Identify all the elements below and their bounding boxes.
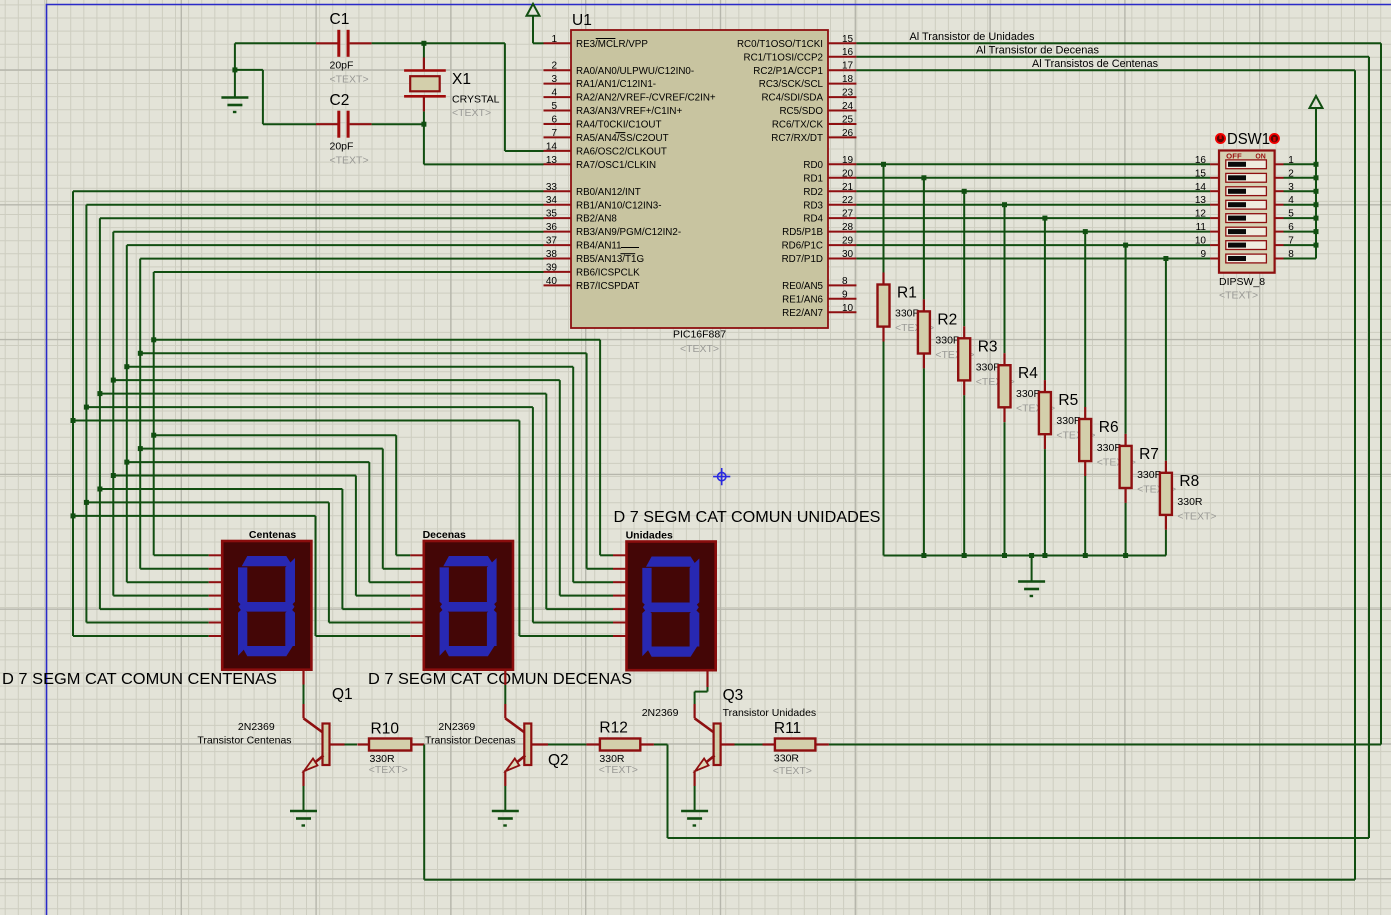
wire RB0 to Decenas display — [73, 515, 316, 517]
U1 left pin 37 stub — [544, 244, 572, 246]
Centenas segment g — [239, 602, 295, 612]
Centenas segment b — [285, 558, 295, 606]
svg-text:RD5/P1B: RD5/P1B — [782, 227, 823, 238]
U1 left pin 34 stub — [544, 204, 572, 206]
svg-text:19: 19 — [842, 155, 854, 166]
svg-text:15: 15 — [842, 34, 854, 45]
svg-text:DIPSW_8: DIPSW_8 — [1219, 276, 1265, 288]
crystal X1 top lead — [423, 58, 425, 70]
U1 right pin 24 stub — [828, 110, 856, 112]
DSW1 left pin 16 stub — [1210, 163, 1219, 165]
resistor R3 body — [958, 338, 970, 380]
U1 right pin 29 stub — [828, 244, 856, 246]
crystal X1 bottom plate — [404, 95, 446, 98]
Decenas segment d — [443, 646, 494, 656]
wire vcc bus — [1315, 108, 1317, 259]
node junction X1 bottom — [421, 122, 426, 127]
resistor R4 top lead — [1003, 353, 1005, 365]
resistor R7 bottom lead — [1124, 488, 1126, 503]
resistor R6 top lead — [1084, 407, 1086, 419]
svg-text:RD7/P1D: RD7/P1D — [782, 254, 823, 265]
svg-text:24: 24 — [842, 101, 854, 112]
U1 right pin 10 stub — [828, 311, 856, 313]
DSW1 right pin 4 stub — [1275, 204, 1284, 206]
transistor Q2 emitter arrow — [506, 759, 520, 772]
svg-text:20pF: 20pF — [330, 141, 354, 153]
resistor R3 top lead — [963, 326, 965, 338]
node bus R5 — [1042, 553, 1047, 558]
node RD4 to R5 — [1042, 216, 1047, 221]
svg-text:<TEXT>: <TEXT> — [680, 343, 719, 355]
wire RB4 to Decenas display — [127, 461, 369, 463]
svg-text:R7: R7 — [1139, 446, 1159, 463]
wire RB2 vertical bus — [99, 218, 101, 609]
svg-text:Q1: Q1 — [332, 686, 353, 703]
wire RD0 row to DIP switch — [856, 163, 1210, 165]
U1 right pin 17 stub — [828, 69, 856, 71]
wire RB6 vertical bus — [153, 272, 155, 555]
svg-text:18: 18 — [842, 74, 854, 85]
svg-text:22: 22 — [842, 195, 854, 206]
overline — [596, 38, 616, 40]
node vcc bus row 5 — [1314, 216, 1319, 221]
wire R1 to ground bus — [883, 342, 885, 556]
Centenas segment d — [242, 646, 293, 656]
crystal X1 body — [410, 76, 440, 91]
DSW1 switch 6 slot — [1226, 227, 1267, 236]
U1 right pin 19 stub — [828, 163, 856, 165]
resistor R8 top lead — [1165, 461, 1167, 473]
resistor R11 right lead — [815, 743, 829, 745]
resistor R7 top lead — [1124, 434, 1126, 446]
svg-text:C2: C2 — [330, 92, 350, 109]
U1 right pin 9 stub — [828, 298, 856, 300]
wire RB4 vertical bus — [126, 245, 128, 582]
svg-text:R5: R5 — [1058, 392, 1078, 409]
node RB4 tap to Unidades — [124, 364, 129, 369]
svg-text:40: 40 — [546, 276, 558, 287]
svg-text:PIC16F887: PIC16F887 — [673, 329, 726, 341]
svg-text:2N2369: 2N2369 — [642, 707, 679, 719]
svg-text:29: 29 — [842, 236, 854, 247]
wire Q3 base to R11 — [735, 744, 763, 746]
svg-text:RA3/AN3/VREF+/C1IN+: RA3/AN3/VREF+/C1IN+ — [576, 106, 682, 117]
wire C1 to X1 node — [372, 42, 505, 44]
wire RB5 vertical bus — [139, 259, 141, 569]
U1 left pin 6 stub — [544, 123, 572, 125]
U1 left pin 3 stub — [544, 83, 572, 85]
node bus ground tap — [1029, 553, 1034, 558]
wire RB2 to Centenas display — [100, 608, 209, 610]
DSW1 switch 6 slider (OFF) — [1228, 229, 1246, 234]
U1 left pin 4 stub — [544, 96, 572, 98]
U1 right pin 27 stub — [828, 217, 856, 219]
svg-text:25: 25 — [842, 115, 854, 126]
svg-text:3: 3 — [551, 74, 557, 85]
wire bus to ground — [1031, 556, 1033, 582]
svg-text:C1: C1 — [330, 11, 350, 28]
svg-text:RC2/P1A/CCP1: RC2/P1A/CCP1 — [753, 66, 823, 77]
resistor R1 body — [878, 285, 890, 327]
wire RB0 to Centenas display — [73, 635, 209, 637]
resistor R12 right lead — [640, 743, 654, 745]
svg-text:13: 13 — [546, 155, 558, 166]
U1 right pin 20 stub — [828, 177, 856, 179]
svg-text:RB3/AN9/PGM/C12IN2-: RB3/AN9/PGM/C12IN2- — [576, 227, 681, 238]
Centenas pin stub 7 — [209, 635, 223, 637]
svg-text:20: 20 — [842, 168, 854, 179]
ground symbol (Q3) — [681, 810, 708, 813]
transistor Q3 collector diagonal — [695, 718, 715, 733]
wire RB6 to Decenas display — [154, 434, 397, 436]
Decenas segment f — [440, 567, 449, 606]
wire DSW1 pin 5 to vcc bus — [1284, 217, 1317, 219]
svg-text:21: 21 — [842, 182, 854, 193]
DSW1 switch 8 slider (OFF) — [1228, 256, 1246, 261]
resistor R4 bottom lead — [1003, 407, 1005, 422]
Decenas segment e — [440, 608, 449, 656]
resistor R11 left lead — [763, 743, 775, 745]
resistor R3 bottom lead — [963, 380, 965, 395]
Q2 base lead — [531, 743, 548, 745]
svg-text:U1: U1 — [572, 12, 592, 29]
DSW1 left pin 10 stub — [1210, 244, 1219, 246]
Centenas segment f — [238, 567, 247, 606]
capacitor C1 right lead — [350, 42, 372, 44]
Decenas segment c — [487, 608, 497, 646]
svg-text:Al Transistor de Decenas: Al Transistor de Decenas — [976, 45, 1100, 57]
U1 left pin 5 stub — [544, 110, 572, 112]
transistor Q1 emitter diagonal — [305, 756, 324, 771]
svg-text:RB5/AN13/T1G: RB5/AN13/T1G — [576, 254, 644, 265]
wire RD6 down to R7 — [1125, 245, 1127, 434]
node bus R2 — [921, 553, 926, 558]
svg-text:330R: 330R — [1177, 496, 1203, 508]
node vcc bus row 3 — [1314, 189, 1319, 194]
DSW1 red marker right — [1270, 134, 1279, 143]
wire R10 down to Centenas control — [423, 745, 425, 880]
U1 right pin 15 stub — [828, 42, 856, 44]
resistor R2 body — [918, 311, 930, 353]
Centenas pin stub 6 — [209, 622, 223, 624]
Unidades pin stub 7 — [613, 635, 627, 637]
wire R8 to ground bus — [1165, 530, 1167, 556]
Centenas pin stub 3 — [209, 581, 223, 583]
wire RB3 to Decenas display — [113, 475, 356, 477]
svg-text:RB7/ICSPDAT: RB7/ICSPDAT — [576, 281, 640, 292]
wire RD6 row to DIP switch — [856, 244, 1210, 246]
resistor R10 right lead — [411, 743, 424, 745]
svg-text:R4: R4 — [1018, 365, 1038, 382]
wire R12 right — [654, 744, 668, 746]
DSW1 left pin 15 stub — [1210, 177, 1219, 179]
DSW1 switch 1 slot — [1226, 160, 1267, 169]
svg-text:12: 12 — [1195, 209, 1207, 220]
capacitor C2 plates — [337, 111, 340, 138]
svg-text:Decenas: Decenas — [423, 529, 466, 541]
svg-text:RB0/AN12/INT: RB0/AN12/INT — [576, 187, 641, 198]
node bus R6 — [1083, 553, 1088, 558]
svg-text:14: 14 — [1195, 182, 1207, 193]
overline — [620, 253, 635, 255]
node RD5 to R6 — [1083, 229, 1088, 234]
wire R6 to ground bus — [1084, 476, 1086, 556]
wire RB0 horizontal from U1 — [73, 190, 544, 192]
svg-text:D 7 SEGM CAT COMUN CENTENAS: D 7 SEGM CAT COMUN CENTENAS — [2, 671, 277, 688]
node RD3 to R4 — [1002, 202, 1007, 207]
wire to pin14 — [505, 150, 544, 152]
node bus R7 — [1123, 553, 1128, 558]
wire X1 bottom — [423, 111, 425, 124]
svg-text:Q2: Q2 — [548, 752, 569, 769]
resistor R10 body — [369, 739, 411, 751]
wire RD5 down to R6 — [1084, 232, 1086, 407]
svg-text:<TEXT>: <TEXT> — [330, 155, 369, 167]
svg-text:R10: R10 — [371, 721, 400, 738]
Unidades segment a — [646, 557, 697, 567]
node vcc bus row 4 — [1314, 202, 1319, 207]
capacitor C1 plates — [337, 30, 340, 57]
wire RB1 vertical bus — [85, 205, 87, 623]
wire RB3 to Centenas display — [113, 595, 208, 597]
svg-text:1: 1 — [551, 34, 557, 45]
resistor R4 body — [999, 365, 1011, 407]
svg-text:20pF: 20pF — [330, 60, 354, 72]
ground symbol (Q2) — [492, 810, 519, 813]
stray overline after RB4/AN11 — [621, 247, 639, 249]
wire DSW1 pin 6 to vcc bus — [1284, 231, 1317, 233]
Q3 collector lead — [693, 704, 695, 718]
U1 right pin 18 stub — [828, 83, 856, 85]
svg-text:RE1/AN6: RE1/AN6 — [782, 294, 823, 305]
DSW1 left pin 13 stub — [1210, 204, 1219, 206]
crystal X1 bottom lead — [423, 97, 425, 111]
U1 left pin 2 stub — [544, 69, 572, 71]
DSW1 left pin 9 stub — [1210, 258, 1219, 260]
DSW1 switch 1 slider (OFF) — [1228, 162, 1246, 167]
Q1 collector lead — [302, 704, 304, 718]
wire Q3 emitter to ground — [694, 786, 696, 810]
wire C1 left — [235, 42, 316, 44]
Decenas pin stub 4 — [410, 595, 424, 597]
7-segment display Decenas body — [424, 541, 513, 670]
DSW1 switch 4 slider (OFF) — [1228, 202, 1246, 207]
node junction X1 top — [421, 41, 426, 46]
DSW1 right pin 2 stub — [1275, 177, 1284, 179]
svg-text:5: 5 — [551, 101, 557, 112]
svg-text:D 7 SEGM CAT COMUN DECENAS: D 7 SEGM CAT COMUN DECENAS — [368, 671, 632, 688]
wire RB6 to Unidades display — [154, 339, 600, 341]
svg-text:2N2369: 2N2369 — [238, 721, 275, 733]
wire RD1 row to DIP switch — [856, 177, 1210, 179]
node RB2 tap to Decenas — [97, 487, 102, 492]
Centenas pin stub 1 — [209, 554, 223, 556]
Centenas pin stub 5 — [209, 608, 223, 610]
wire RB2 horizontal from U1 — [100, 217, 544, 219]
svg-text:13: 13 — [1195, 195, 1207, 206]
transistor Q2 emitter diagonal — [507, 756, 526, 771]
resistor R5 top lead — [1044, 380, 1046, 392]
crystal X1 top plate — [404, 69, 446, 72]
wire R3 to ground bus — [963, 395, 965, 555]
svg-text:16: 16 — [842, 47, 854, 58]
U1 right pin 8 stub — [828, 284, 856, 286]
svg-text:RA4/T0CKI/C1OUT: RA4/T0CKI/C1OUT — [576, 120, 661, 131]
transistor Q3 emitter arrow — [695, 759, 709, 772]
svg-text:27: 27 — [842, 209, 854, 220]
wire RD3 row to DIP switch — [856, 204, 1210, 206]
U1 left pin 14 stub — [544, 150, 572, 152]
overline — [615, 132, 625, 134]
node RB2 tap to Unidades — [97, 391, 102, 396]
DSW1 switch 4 slot — [1226, 200, 1267, 209]
svg-text:33: 33 — [546, 182, 558, 193]
U1 right pin 21 stub — [828, 190, 856, 192]
wire down to C2 — [262, 70, 264, 124]
svg-text:<TEXT>: <TEXT> — [1177, 510, 1216, 522]
svg-text:15: 15 — [1195, 168, 1207, 179]
svg-text:<TEXT>: <TEXT> — [330, 74, 369, 86]
wire RB1 to Decenas display — [86, 501, 329, 503]
DSW1 switch 5 slot — [1226, 214, 1267, 223]
origin marker — [713, 468, 730, 485]
wire RB5 to Unidades display — [140, 352, 586, 354]
node RB5 tap to Decenas — [138, 446, 143, 451]
DSW1 switch 8 slot — [1226, 254, 1267, 263]
svg-text:10: 10 — [842, 303, 854, 314]
wire RC1 to Q2 base (Decenas) — [856, 56, 1369, 58]
DSW1 right pin 5 stub — [1275, 217, 1284, 219]
svg-text:RA6/OSC2/CLKOUT: RA6/OSC2/CLKOUT — [576, 147, 667, 158]
resistor R12 body — [600, 739, 640, 751]
svg-text:R6: R6 — [1099, 419, 1119, 436]
svg-text:RD3: RD3 — [803, 200, 823, 211]
Decenas pin stub 3 — [410, 581, 424, 583]
node RB3 tap to Unidades — [111, 378, 116, 383]
svg-text:2N2369: 2N2369 — [438, 721, 475, 733]
Decenas pin stub 1 — [410, 554, 424, 556]
PIC16F887 microcontroller U1 body — [571, 30, 828, 328]
DSW1 switch 2 slot — [1226, 173, 1267, 182]
svg-text:17: 17 — [842, 61, 854, 72]
svg-text:RE0/AN5: RE0/AN5 — [782, 281, 823, 292]
resistor R7 body — [1120, 446, 1132, 488]
wire R5 to ground bus — [1044, 449, 1046, 555]
node RB6 tap to Decenas — [151, 433, 156, 438]
wire RB0 vertical bus — [72, 191, 74, 636]
capacitor C2 left lead — [316, 123, 338, 125]
DSW1 switch 3 slot — [1226, 187, 1267, 196]
svg-text:Centenas: Centenas — [249, 529, 296, 541]
Unidades pin stub 6 — [613, 622, 627, 624]
resistor R5 bottom lead — [1044, 434, 1046, 449]
DSW1 red marker left — [1216, 134, 1225, 143]
node RB6 tap to Unidades — [151, 337, 156, 342]
svg-text:26: 26 — [842, 128, 854, 139]
svg-text:RD1: RD1 — [803, 173, 823, 184]
Decenas segment a — [443, 556, 494, 566]
node RB1 tap to Decenas — [84, 500, 89, 505]
wire RC2 to Q1 base (Centenas) — [856, 69, 1355, 71]
svg-text:RD4: RD4 — [803, 214, 823, 225]
Unidades segment c — [690, 609, 700, 647]
wire RD5 row to DIP switch — [856, 231, 1210, 233]
wire RB6 horizontal from U1 — [154, 271, 544, 273]
transistor Q1 collector diagonal — [304, 718, 324, 733]
wire RD2 row to DIP switch — [856, 190, 1210, 192]
wire Q2 emitter to ground — [504, 786, 506, 810]
resistor R1 bottom lead — [882, 327, 884, 342]
DSW1 switch 7 slider (OFF) — [1228, 243, 1246, 248]
wire RC0 to Q3 base (Unidades) — [856, 42, 1381, 44]
svg-text:RB1/AN10/C12IN3-: RB1/AN10/C12IN3- — [576, 200, 662, 211]
node RB4 tap to Decenas — [124, 460, 129, 465]
node RD1 to R2 — [921, 175, 926, 180]
svg-text:Q3: Q3 — [723, 687, 744, 704]
DSW1 switch 5 slider (OFF) — [1228, 216, 1246, 221]
svg-text:RC1/T1OSI/CCP2: RC1/T1OSI/CCP2 — [744, 52, 824, 63]
svg-text:6: 6 — [551, 115, 557, 126]
transistor Q3 emitter diagonal — [696, 756, 715, 771]
node bus R3 — [962, 553, 967, 558]
Unidades pin stub 2 — [613, 568, 627, 570]
wire Decenas common down — [504, 685, 506, 704]
resistor R1 top lead — [882, 273, 884, 285]
svg-text:10: 10 — [1195, 236, 1207, 247]
wire R12 down to Decenas control — [667, 745, 669, 839]
svg-text:34: 34 — [546, 195, 558, 206]
wire X1 top — [423, 43, 425, 57]
svg-text:23: 23 — [842, 88, 854, 99]
7-segment display Unidades body — [627, 542, 716, 671]
svg-text:R8: R8 — [1179, 473, 1199, 490]
svg-text:4: 4 — [551, 88, 557, 99]
svg-text:<TEXT>: <TEXT> — [1219, 290, 1258, 302]
DSW1 right pin 3 stub — [1275, 190, 1284, 192]
wire RB5 to Decenas display — [140, 448, 383, 450]
wire DSW1 pin 4 to vcc bus — [1284, 204, 1317, 206]
Decenas pin stub 5 — [410, 608, 424, 610]
svg-text:RB4/AN11: RB4/AN11 — [576, 241, 622, 252]
U1 right pin 30 stub — [828, 258, 856, 260]
node RD2 to R3 — [962, 189, 967, 194]
node RB1 tap to Unidades — [84, 405, 89, 410]
node RD7 to R8 — [1163, 256, 1168, 261]
svg-text:9: 9 — [1200, 249, 1206, 260]
DSW1 right pin 6 stub — [1275, 231, 1284, 233]
wire ground stub — [234, 70, 236, 97]
svg-text:<TEXT>: <TEXT> — [773, 765, 812, 777]
U1 left pin 39 stub — [544, 271, 572, 273]
Unidades segment d — [646, 647, 697, 657]
DSW1 right pin 8 stub — [1275, 258, 1284, 260]
DSW1 left pin 12 stub — [1210, 217, 1219, 219]
svg-text:<TEXT>: <TEXT> — [599, 764, 638, 776]
Centenas segment e — [238, 608, 247, 656]
wire C2 to X1 bottom node — [372, 123, 424, 125]
svg-text:7: 7 — [551, 128, 557, 139]
wire ground jog — [235, 69, 263, 71]
U1 right pin 28 stub — [828, 231, 856, 233]
svg-text:RA5/AN4/SS/C2OUT: RA5/AN4/SS/C2OUT — [576, 133, 669, 144]
svg-text:RA1/AN1/C12IN1-: RA1/AN1/C12IN1- — [576, 79, 656, 90]
node junction caps-ground — [232, 67, 237, 72]
DSW1 right pin 7 stub — [1275, 244, 1284, 246]
svg-text:RC4/SDI/SDA: RC4/SDI/SDA — [761, 93, 823, 104]
svg-text:30: 30 — [842, 249, 854, 260]
U1 left pin 13 stub — [544, 163, 572, 165]
svg-text:<TEXT>: <TEXT> — [369, 764, 408, 776]
